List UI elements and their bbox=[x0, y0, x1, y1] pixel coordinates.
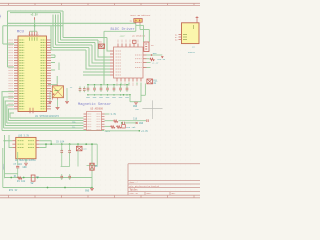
svg-text:Size: A4: Size: A4 bbox=[130, 192, 138, 195]
svg-text:+5V: +5V bbox=[135, 108, 140, 111]
svg-text:Motor LED indicator: Motor LED indicator bbox=[131, 15, 151, 17]
svg-text:+5V: +5V bbox=[0, 14, 2, 19]
svg-text:LDO 3.3V: LDO 3.3V bbox=[18, 134, 30, 137]
svg-text:+3.3V: +3.3V bbox=[141, 130, 149, 133]
svg-text:+1.2V: +1.2V bbox=[152, 62, 159, 65]
svg-text:C10: C10 bbox=[83, 147, 88, 150]
svg-text:U5 AS5600: U5 AS5600 bbox=[91, 107, 104, 110]
svg-text:R10 2m: R10 2m bbox=[158, 58, 166, 61]
svg-text:GND: GND bbox=[139, 122, 144, 125]
svg-text:C9 104: C9 104 bbox=[56, 141, 65, 144]
svg-text:Sheet: /: Sheet: / bbox=[130, 182, 138, 184]
svg-text:R13 10k: R13 10k bbox=[126, 126, 136, 129]
svg-text:R1 10k: R1 10k bbox=[17, 180, 26, 183]
svg-text:+BATT: +BATT bbox=[2, 163, 5, 170]
svg-text:+3.3V: +3.3V bbox=[31, 13, 39, 16]
svg-text:Rev:: Rev: bbox=[172, 193, 176, 195]
svg-text:Title:: Title: bbox=[130, 189, 139, 192]
svg-text:+12V: +12V bbox=[120, 34, 126, 37]
svg-text:USBLC6: USBLC6 bbox=[188, 51, 196, 54]
svg-text:GND: GND bbox=[23, 166, 28, 169]
svg-text:GND: GND bbox=[85, 189, 90, 192]
svg-text:C16: C16 bbox=[133, 118, 138, 121]
svg-text:BT1 3V: BT1 3V bbox=[9, 189, 18, 192]
svg-text:MCU: MCU bbox=[17, 30, 25, 34]
svg-text:C7 104: C7 104 bbox=[14, 163, 23, 166]
svg-text:D2: D2 bbox=[130, 19, 132, 22]
svg-text:3.3V: 3.3V bbox=[111, 113, 117, 116]
svg-text:Date:: Date: bbox=[147, 193, 152, 195]
